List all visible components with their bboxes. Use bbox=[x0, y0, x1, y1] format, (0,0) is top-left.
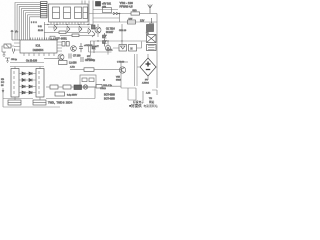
wire vert x90 bbox=[90, 41, 92, 56]
transistor V4 bbox=[88, 28, 91, 34]
wire mid bbox=[44, 31, 59, 33]
transformer core lines bbox=[135, 54, 138, 86]
IC1 U1 bbox=[20, 40, 57, 53]
arrow marks bbox=[113, 12, 119, 14]
bridge wires bbox=[137, 54, 157, 80]
display DS1 bbox=[49, 4, 89, 22]
resistor R2 bbox=[41, 4, 48, 6]
paper noise overlay bbox=[0, 0, 160, 110]
transistor V5 bbox=[95, 27, 101, 33]
cap C7 bbox=[69, 54, 71, 59]
junction bbox=[119, 13, 121, 15]
IC3 right tall bbox=[36, 69, 44, 98]
box D1 bbox=[119, 45, 127, 52]
IC2 left tall bbox=[11, 69, 19, 98]
resistor R4 bbox=[41, 8, 48, 10]
box B6 bbox=[55, 92, 65, 96]
wire row3b vertical bbox=[119, 14, 121, 23]
wire to antenna bbox=[140, 13, 151, 15]
wire y52 bbox=[89, 44, 112, 52]
node box dark bbox=[96, 2, 101, 7]
junction dots row0 bbox=[47, 24, 88, 25]
contact rect 1 bbox=[82, 78, 87, 82]
diode row 2 bbox=[22, 79, 32, 82]
resistor R7 bbox=[41, 14, 48, 16]
bus wire 2 bbox=[17, 5, 40, 40]
transistor V15 body bbox=[119, 67, 125, 73]
diode row 3 bbox=[22, 85, 32, 88]
bottom right verticals bbox=[121, 88, 157, 100]
wire under display 2 bbox=[48, 26, 90, 28]
IC1 top pins bbox=[31, 38, 56, 41]
wire drop left bbox=[44, 22, 46, 40]
inductor L1 bbox=[59, 61, 68, 65]
box H1 bbox=[129, 45, 137, 52]
bus wire 3 bbox=[19, 7, 40, 40]
wire row8 bbox=[46, 86, 50, 88]
box B5 dark bbox=[74, 85, 82, 90]
right edge wire top bbox=[150, 13, 157, 15]
connector J1 bbox=[8, 100, 21, 105]
wire row2 bbox=[89, 13, 131, 15]
digit 2 bbox=[64, 7, 71, 19]
box B3 bbox=[50, 85, 58, 89]
transistor V8 bbox=[71, 46, 77, 52]
junction dots row4 bbox=[97, 40, 122, 41]
digit 1 bbox=[53, 7, 60, 19]
crystal B1 bbox=[4, 44, 11, 48]
capacitor C6 bbox=[79, 43, 83, 52]
wire row6 bbox=[10, 62, 44, 64]
diode row 4 bbox=[22, 91, 32, 94]
resistor R8 bbox=[41, 16, 48, 18]
transistor V3 bbox=[79, 26, 82, 32]
wire row4 bbox=[90, 40, 146, 42]
bottom-left wires bbox=[3, 88, 60, 107]
resistor R10 bbox=[72, 34, 79, 37]
wire right drop bbox=[120, 62, 122, 88]
resistor R12 bbox=[84, 68, 94, 72]
digit 4 bbox=[83, 7, 88, 19]
transistor V1 bbox=[54, 25, 57, 31]
contact box bbox=[80, 75, 96, 87]
wire row3 bbox=[93, 21, 157, 23]
wire row1 bbox=[93, 9, 118, 11]
transistor V2 bbox=[67, 26, 70, 32]
IC1 bottom pins bbox=[24, 53, 54, 56]
wires mid right bbox=[108, 24, 142, 55]
transistor V15 bbox=[121, 69, 123, 71]
relay K2 bbox=[147, 45, 157, 51]
resistor R14 bbox=[66, 42, 69, 47]
cap dark C3 bbox=[147, 25, 154, 32]
lamp circle bbox=[83, 85, 87, 89]
IC1 right pins bbox=[57, 42, 62, 51]
resistor R5 bbox=[41, 10, 48, 12]
box K0 bbox=[103, 8, 112, 13]
bus wire 5 bbox=[23, 11, 40, 40]
diode VD1 bbox=[103, 33, 107, 38]
vertical wire B bbox=[92, 1, 94, 25]
capacitor C2 bbox=[149, 18, 154, 29]
digit 3 bbox=[75, 7, 82, 19]
LED V6 bbox=[105, 45, 110, 50]
label box QT-8051 bbox=[50, 36, 55, 39]
bus wire 8 bbox=[30, 17, 41, 40]
bus wire 4 bbox=[21, 9, 40, 40]
Vcc symbol bbox=[11, 30, 21, 40]
top mid verticals bbox=[82, 1, 85, 5]
junction 2 bbox=[103, 79, 105, 81]
wire row5 bbox=[44, 58, 58, 60]
bus wire 6 bbox=[26, 13, 41, 40]
bus wire 1 bbox=[15, 3, 41, 41]
ground G1 bbox=[2, 52, 6, 57]
resistor R1 bbox=[41, 2, 48, 4]
right edge wire bbox=[156, 14, 158, 89]
cap C9 bbox=[81, 57, 83, 62]
vertical wire A bbox=[88, 1, 90, 25]
resistor R9 bbox=[59, 31, 66, 34]
arrow mark bbox=[2, 90, 4, 92]
resistor R6 bbox=[41, 12, 48, 14]
relay K1 bbox=[147, 35, 157, 43]
wire above rects bbox=[10, 67, 44, 69]
resistor R11 bbox=[131, 12, 140, 15]
transistor V7 bbox=[58, 54, 64, 60]
capacitor C1 bbox=[13, 49, 15, 54]
connector J2 bbox=[33, 100, 46, 105]
display bottom pins bbox=[51, 22, 84, 25]
box small dark bbox=[92, 25, 96, 29]
wire row7 bbox=[70, 69, 84, 71]
wire crystal bbox=[2, 46, 14, 52]
wire V5 up bbox=[97, 24, 99, 37]
diagonal strokes cluster bbox=[92, 31, 95, 37]
resistor R13 bbox=[62, 42, 65, 47]
diode row 1 bbox=[22, 72, 32, 75]
contact rect 2 bbox=[89, 78, 94, 82]
zener DW bbox=[128, 20, 136, 24]
box small R15 bbox=[96, 85, 102, 89]
box B4 bbox=[63, 85, 71, 89]
antenna E1 bbox=[148, 5, 153, 14]
resistor R3 bbox=[41, 6, 48, 8]
wire under display bbox=[44, 24, 93, 26]
diode VD2 bbox=[103, 39, 107, 47]
bridge rectifier B2 bbox=[140, 58, 156, 76]
wire row9 bbox=[46, 98, 95, 100]
wire row4b bbox=[93, 17, 120, 19]
IC1 left pins bbox=[14, 43, 20, 50]
ground G2 bbox=[5, 58, 10, 63]
diode VD3 bbox=[92, 41, 96, 53]
bus wire 7 bbox=[28, 15, 41, 40]
